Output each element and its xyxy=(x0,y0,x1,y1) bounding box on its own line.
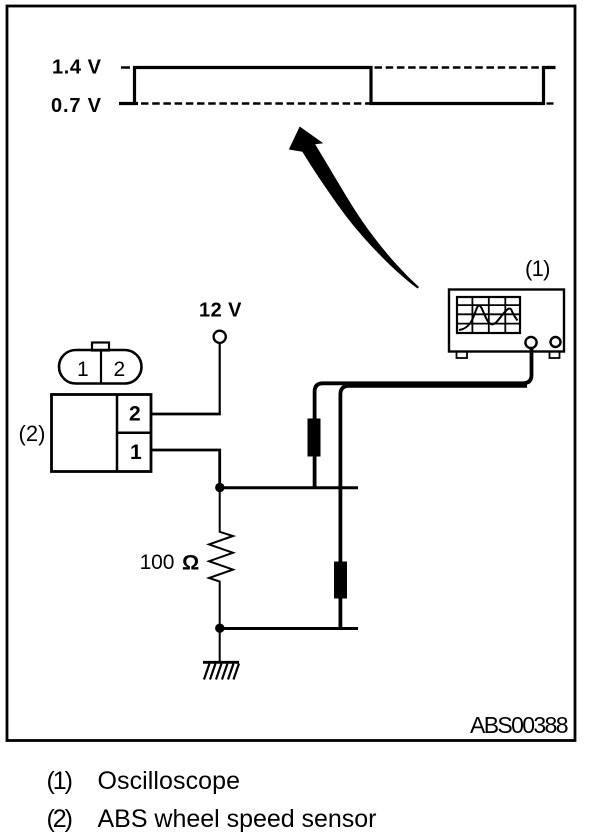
connector pin 1 cell label xyxy=(130,441,142,464)
svg-text:1: 1 xyxy=(130,441,142,464)
oscilloscope U1 body xyxy=(449,290,564,352)
svg-text:(2): (2) xyxy=(47,805,74,833)
probe cable branch 2 xyxy=(340,386,527,628)
wire to ground xyxy=(219,630,221,661)
wire pin1 to junction xyxy=(152,450,220,487)
svg-text:ABS wheel speed sensor: ABS wheel speed sensor xyxy=(98,805,377,833)
label 1.4 V xyxy=(52,57,102,79)
svg-text:0.7 V: 0.7 V xyxy=(51,95,102,117)
junction node dot upper xyxy=(215,483,224,492)
connector body divider vertical xyxy=(116,395,119,472)
oscilloscope knob B xyxy=(551,337,561,347)
waveform high-level tick xyxy=(121,66,130,69)
waveform trace xyxy=(135,68,556,104)
ground symbol xyxy=(203,662,239,679)
wire junction horizontal lower xyxy=(220,627,358,630)
label (2) connector callout xyxy=(19,421,46,446)
oscilloscope knob A xyxy=(525,337,536,348)
wire junction horizontal upper xyxy=(220,486,358,489)
svg-text:1.4 V: 1.4 V xyxy=(52,57,102,79)
connector body box xyxy=(52,395,152,472)
label (1) oscilloscope callout xyxy=(525,256,551,281)
svg-text:12 V: 12 V xyxy=(199,300,242,322)
connector face pin 2 label xyxy=(114,358,126,381)
label 0.7 V xyxy=(51,95,102,117)
12V terminal circle xyxy=(214,331,226,343)
svg-text:(1): (1) xyxy=(525,256,551,281)
figure code ABS00388 xyxy=(470,712,569,738)
svg-text:Oscilloscope: Oscilloscope xyxy=(98,767,241,795)
connector face divider xyxy=(100,350,102,384)
svg-text:Ω: Ω xyxy=(182,551,199,575)
waveform low-level tick xyxy=(119,102,138,105)
probe clip 2 xyxy=(334,562,347,599)
svg-text:(2): (2) xyxy=(19,421,46,446)
svg-text:100: 100 xyxy=(140,551,175,574)
oscilloscope screen with grid xyxy=(457,297,520,333)
waveform dashed low reference xyxy=(141,102,371,104)
connector face pin 1 label xyxy=(77,358,89,381)
probe clip 1 xyxy=(308,419,321,457)
waveform dashed high reference xyxy=(375,66,541,68)
connector pin 2 cell label xyxy=(129,403,141,426)
label 100 ohm xyxy=(140,551,200,575)
resistor R1 100 ohm xyxy=(209,489,233,624)
curved arrow to waveform xyxy=(289,127,419,289)
connector face tab xyxy=(92,343,109,351)
connector body divider horizontal xyxy=(117,432,151,435)
wire pin2 to 12V xyxy=(152,413,221,416)
label 12 V xyxy=(199,300,242,322)
oscilloscope screen trace xyxy=(459,306,518,331)
svg-text:1: 1 xyxy=(77,358,89,381)
caption line 2 xyxy=(47,805,377,833)
oscilloscope foot right xyxy=(550,352,560,359)
caption line 1 xyxy=(47,767,241,795)
svg-text:(1): (1) xyxy=(47,767,74,795)
waveform dashed low right bit xyxy=(547,102,554,104)
oscilloscope foot left xyxy=(457,352,468,359)
connector face stadium xyxy=(59,350,142,384)
junction node dot lower xyxy=(215,624,224,633)
svg-text:2: 2 xyxy=(129,403,141,426)
svg-text:2: 2 xyxy=(114,358,126,381)
wire 12V vertical xyxy=(219,343,221,414)
svg-text:ABS00388: ABS00388 xyxy=(470,712,569,738)
probe cable from scope xyxy=(315,347,532,487)
